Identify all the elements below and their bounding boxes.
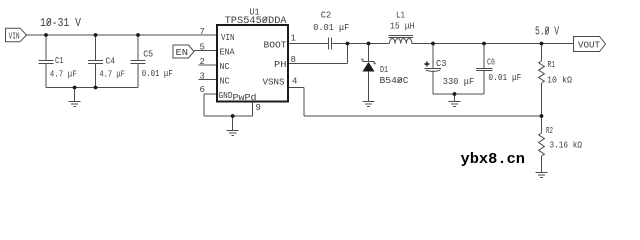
svg-text:10 kΩ: 10 kΩ: [547, 76, 573, 86]
svg-text:8: 8: [291, 55, 296, 65]
svg-text:0.01 μF: 0.01 μF: [488, 73, 521, 83]
svg-text:5: 5: [200, 43, 205, 53]
svg-text:ybx8.cn: ybx8.cn: [461, 151, 526, 168]
svg-text:B540C: B540C: [380, 76, 410, 86]
svg-text:C2: C2: [321, 10, 332, 20]
svg-text:BOOT: BOOT: [264, 39, 287, 50]
svg-text:C1: C1: [55, 56, 64, 66]
svg-text:0.01 μF: 0.01 μF: [313, 23, 349, 33]
svg-text:NC: NC: [220, 76, 230, 87]
svg-text:PH: PH: [274, 59, 287, 70]
svg-text:5.0 V: 5.0 V: [535, 26, 559, 39]
svg-text:ENA: ENA: [220, 47, 235, 58]
svg-text:4: 4: [292, 77, 297, 87]
svg-text:7: 7: [200, 27, 205, 37]
svg-text:C4: C4: [106, 57, 116, 67]
svg-text:6: 6: [200, 85, 205, 95]
svg-text:VOUT: VOUT: [578, 41, 601, 51]
svg-text:1: 1: [291, 34, 296, 44]
svg-text:VSNS: VSNS: [263, 76, 285, 87]
svg-text:2: 2: [200, 57, 205, 67]
svg-text:0.01 μF: 0.01 μF: [142, 69, 173, 79]
svg-text:PwPd: PwPd: [233, 92, 257, 103]
svg-text:VIN: VIN: [221, 32, 235, 43]
svg-text:D1: D1: [380, 65, 388, 75]
svg-text:3.16 kΩ: 3.16 kΩ: [550, 140, 583, 150]
svg-text:10-31 V: 10-31 V: [40, 17, 81, 30]
svg-text:R2: R2: [546, 126, 553, 136]
svg-text:C3: C3: [436, 59, 447, 69]
svg-text:VIN: VIN: [9, 32, 20, 42]
svg-text:330 μF: 330 μF: [443, 77, 474, 87]
svg-text:4.7 μF: 4.7 μF: [50, 69, 77, 79]
svg-text:3: 3: [200, 72, 205, 82]
svg-text:C6: C6: [487, 58, 495, 68]
svg-text:9: 9: [256, 103, 261, 113]
svg-text:TPS5450DDA: TPS5450DDA: [225, 16, 287, 27]
svg-text:15 μH: 15 μH: [390, 21, 415, 31]
svg-text:4.7 μF: 4.7 μF: [99, 69, 125, 79]
svg-text:GND: GND: [219, 90, 233, 101]
svg-text:NC: NC: [220, 61, 230, 72]
svg-text:C5: C5: [143, 50, 153, 60]
svg-text:L1: L1: [396, 11, 405, 21]
svg-text:EN: EN: [176, 47, 189, 58]
svg-text:R1: R1: [548, 60, 556, 70]
